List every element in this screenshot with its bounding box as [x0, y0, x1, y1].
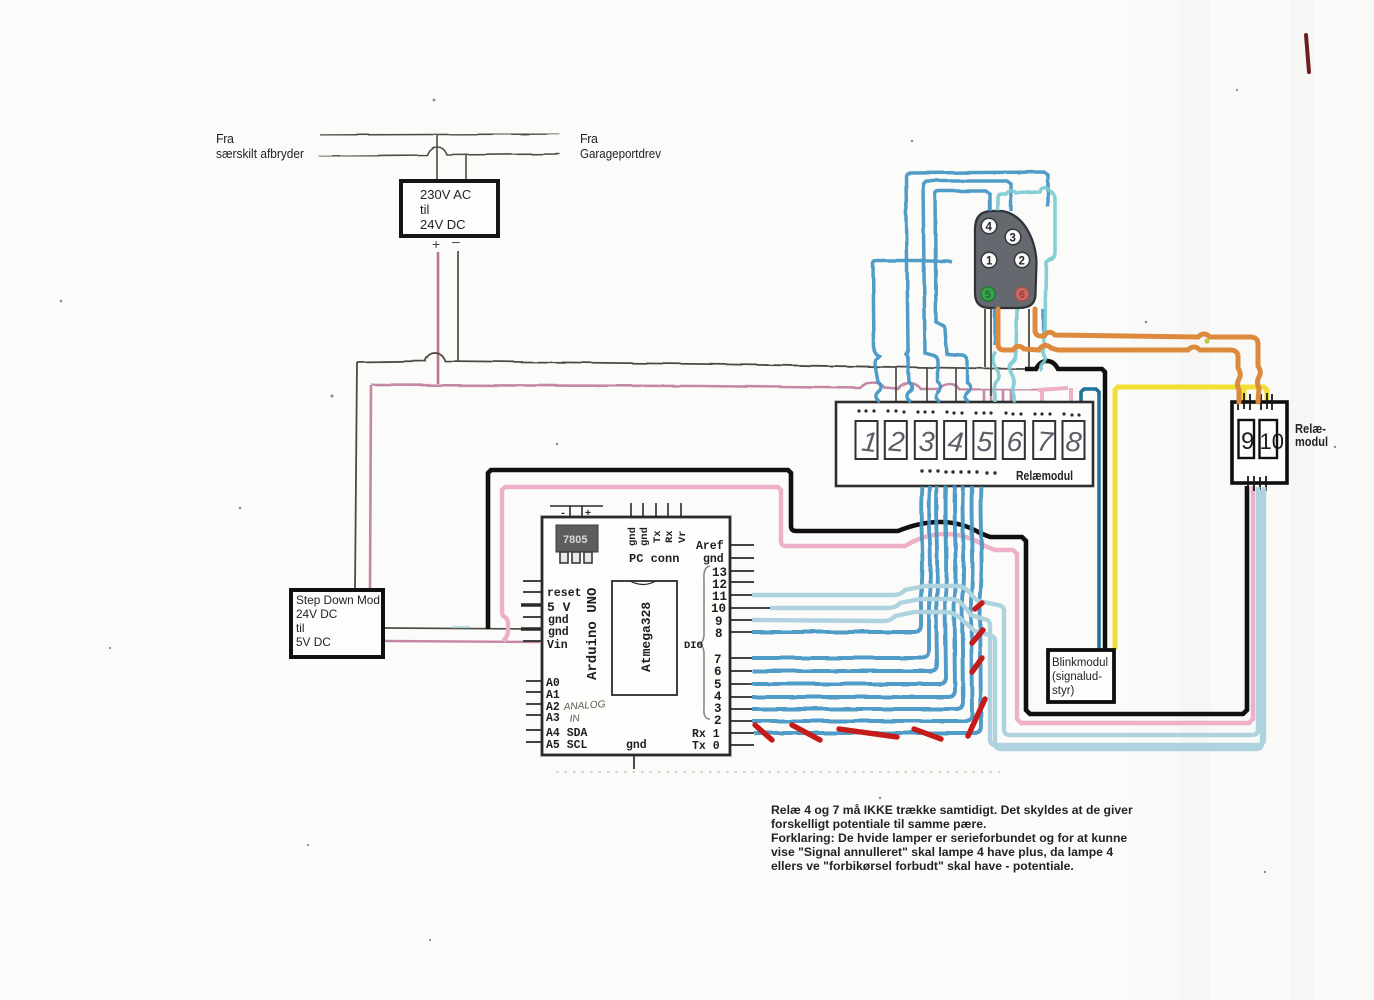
svg-text:1: 1	[986, 256, 993, 268]
svg-text:230V AC: 230V AC	[420, 187, 471, 202]
svg-text:Fra: Fra	[216, 132, 234, 146]
svg-text:10: 10	[711, 602, 726, 616]
wire relay to D8	[752, 486, 922, 632]
svg-text:-: -	[560, 509, 566, 520]
svg-text:til: til	[420, 202, 430, 217]
wire blue from relay 8 to blinkmodul	[1081, 389, 1099, 650]
relay 2	[885, 421, 907, 459]
pencil drop to relay module b	[926, 367, 928, 402]
plus bus stub into relay 6	[1002, 390, 1005, 402]
relay 9/10 top pin ticks	[1238, 393, 1272, 410]
wire N drop to PSU	[465, 155, 467, 181]
red dash 1	[755, 725, 772, 740]
red dash 5	[975, 603, 982, 609]
red dash 8	[968, 699, 985, 736]
svg-text:7805: 7805	[563, 534, 587, 546]
svg-text:4: 4	[986, 222, 993, 234]
relay 4	[944, 421, 966, 459]
pencil drop to relay module a	[895, 367, 897, 402]
svg-text:reset: reset	[547, 587, 582, 600]
signal head body	[975, 211, 1037, 308]
wire 24V plus (dark pink crayon) from PSU	[437, 252, 440, 384]
label Relae-modul	[1295, 422, 1328, 449]
svg-text:vise "Signal annulleret" skal: vise "Signal annulleret" skal lampe 4 ha…	[771, 845, 1113, 859]
svg-text:A3: A3	[546, 712, 560, 725]
gnd pin below board	[633, 755, 635, 769]
IC Atmega328	[612, 581, 677, 695]
wire minus bus (pencil) with hop over pink	[357, 353, 1025, 369]
svg-text:Step Down Mod: Step Down Mod	[296, 593, 380, 607]
arduino UNO board outline	[542, 517, 730, 755]
svg-text:modul: modul	[1295, 435, 1328, 449]
svg-text:6: 6	[1006, 426, 1025, 458]
svg-text:til: til	[296, 621, 305, 635]
svg-text:Fra: Fra	[580, 132, 598, 146]
svg-text:2: 2	[887, 425, 907, 457]
wire D11 pale blue to relay 10	[752, 487, 1258, 735]
wire lamp 3 (cyan, mid top)	[923, 181, 1011, 402]
svg-text:gnd: gnd	[639, 527, 651, 546]
svg-text:PC conn: PC conn	[629, 552, 679, 566]
svg-text:Aref: Aref	[696, 540, 724, 553]
svg-text:Relæ-: Relæ-	[1295, 422, 1326, 436]
svg-text:2: 2	[1019, 256, 1025, 268]
wire minus bus black marker continuation with hop	[1025, 361, 1105, 650]
lamp 6 red	[1015, 287, 1029, 301]
relay module 1-8 box	[836, 402, 1093, 486]
wire 24V minus (pencil) from PSU	[457, 251, 459, 361]
pink line step-down to arduino Vin	[384, 641, 540, 642]
svg-text:gnd: gnd	[703, 553, 724, 566]
wire right of head short (cyan)	[1042, 310, 1046, 338]
label: Fra saerskilt afbryder	[216, 132, 304, 161]
wire mains L (top line)	[320, 134, 560, 135]
svg-text:10: 10	[1260, 429, 1284, 454]
regulator 7805	[556, 525, 598, 563]
arduino left pin ticks	[522, 581, 542, 742]
relay 9/10 bottom pin ticks	[1248, 476, 1266, 492]
wire light teal into relay 6	[1009, 309, 1017, 402]
wire L drop to PSU	[436, 135, 438, 181]
wire mains N (second line with hop)	[318, 147, 560, 156]
wire lamp loop (cyan U)	[873, 261, 952, 402]
thick 5V and gnd ticks	[521, 605, 542, 629]
red dash 4	[914, 729, 941, 739]
relay 5	[973, 421, 995, 459]
label: Fra Garageportdrev	[580, 132, 662, 161]
wire plus bus (magenta crayon) wavy	[372, 382, 1040, 390]
plus bus end into relay 8 (pink marker)	[1038, 388, 1071, 402]
svg-text:5: 5	[985, 289, 991, 301]
svg-text:forskelligt potentiale til sam: forskelligt potentiale til samme pære.	[771, 817, 986, 831]
yellow stub into relay 9	[1242, 387, 1247, 402]
pencil lead lamp 5	[984, 309, 986, 367]
faint dotted line below arduino	[556, 771, 1000, 773]
svg-text:DIO: DIO	[684, 640, 703, 652]
svg-text:IN: IN	[569, 713, 581, 725]
wire orange lamp5 to relay 10	[998, 309, 1240, 402]
svg-text:A5 SCL: A5 SCL	[546, 739, 588, 752]
plus bus stub into relay 7 (pink marker)	[1040, 389, 1044, 402]
svg-text:+: +	[432, 236, 440, 252]
red dash 6	[972, 630, 983, 643]
svg-text:8: 8	[715, 627, 723, 641]
pencil line step-down to arduino gnd	[384, 628, 540, 629]
svg-text:Rx: Rx	[664, 530, 676, 543]
svg-text:Blinkmodul: Blinkmodul	[1052, 657, 1108, 669]
blink module box	[1048, 650, 1114, 702]
svg-text:Garageportdrev: Garageportdrev	[580, 147, 662, 161]
plus bus stub into relay 5	[983, 390, 986, 402]
arduino right pin ticks	[731, 545, 770, 745]
relay 3	[915, 421, 937, 459]
svg-text:Relæmodul: Relæmodul	[1016, 469, 1073, 483]
pencil lead lamp 6	[1028, 309, 1030, 367]
svg-text:24V DC: 24V DC	[420, 217, 466, 232]
svg-text:2: 2	[714, 714, 722, 728]
red dash 7	[972, 658, 982, 672]
wire D10 pale blue to relay 10	[770, 487, 1264, 745]
wire lamp 1 (light teal over head)	[998, 188, 1055, 371]
svg-text:9: 9	[1241, 428, 1254, 455]
pink wire arduino 5V loop	[502, 486, 1253, 723]
svg-text:Forklaring: De hvide lamper er: Forklaring: De hvide lamper er serieforb…	[771, 831, 1127, 845]
wire plus bus drop to step-down	[370, 385, 371, 590]
DIO brace	[699, 566, 710, 719]
svg-text:gnd: gnd	[626, 739, 647, 752]
relay 6	[1003, 421, 1025, 459]
svg-text:Arduino UNO: Arduino UNO	[585, 588, 601, 680]
red dash 2	[792, 725, 820, 740]
wire D9 pale blue to relay 10	[752, 490, 1262, 749]
wire relay to D6	[752, 486, 938, 671]
plus bus stub into relay 6b	[1010, 390, 1013, 402]
wire lamp 2 (cyan, outer top)	[906, 172, 1048, 402]
relay 10	[1260, 420, 1284, 458]
red dash 3	[839, 729, 897, 737]
plus bus stub into relay 5b	[990, 390, 993, 402]
svg-text:gnd: gnd	[627, 527, 639, 546]
wire relay to D2	[752, 486, 973, 721]
relay 8	[1063, 421, 1085, 459]
svg-text:5 V: 5 V	[547, 600, 571, 615]
PC conn pins	[631, 503, 681, 517]
svg-text:5: 5	[976, 426, 995, 458]
relay module bottom dots	[920, 469, 996, 474]
svg-text:+: +	[585, 509, 591, 520]
faint blue tick on gnd line	[452, 626, 470, 628]
svg-text:–: –	[452, 233, 460, 249]
scanner mark top right	[1306, 35, 1309, 72]
wire relay to D3	[752, 486, 964, 709]
svg-text:6: 6	[714, 665, 722, 679]
green dot on orange wire	[1204, 338, 1209, 343]
pencil drop to relay module c	[955, 368, 957, 402]
svg-text:Atmega328: Atmega328	[639, 602, 654, 672]
svg-text:Tx: Tx	[652, 530, 664, 543]
relay 9	[1239, 420, 1255, 458]
wire minus bus drop to step-down	[355, 362, 357, 590]
wire light teal into relay 5	[994, 352, 999, 402]
svg-text:ellers ve "forbikørsel forbudt: ellers ve "forbikørsel forbudt" skal hav…	[771, 859, 1074, 873]
wire relay to D1	[754, 486, 982, 733]
lamp 1	[981, 252, 997, 268]
svg-text:Relæ 4 og 7 må IKKE trække sam: Relæ 4 og 7 må IKKE trække samtidigt. De…	[771, 803, 1133, 817]
relay module 9/10 box	[1232, 402, 1287, 483]
wire orange lamp6 to relay 10	[1035, 309, 1260, 402]
power supply PSU1 230V AC to 24V DC	[401, 181, 498, 236]
pencil lead lamp 5b	[990, 309, 992, 396]
lamp 2	[1014, 252, 1029, 267]
relay module top dots	[857, 409, 1080, 416]
svg-text:3: 3	[918, 426, 936, 458]
wire lamp 4 (cyan, inner top)	[935, 191, 990, 402]
black wire arduino gnd loop	[488, 470, 1247, 714]
svg-text:Vin: Vin	[547, 639, 568, 652]
relay 1	[856, 421, 880, 459]
svg-text:3: 3	[1010, 233, 1016, 245]
lamp 3	[1005, 229, 1021, 245]
wire relay to D7	[752, 486, 930, 658]
svg-text:særskilt afbryder: særskilt afbryder	[216, 147, 304, 161]
step-down module 24V to 5V	[291, 590, 383, 657]
svg-text:24V DC: 24V DC	[296, 607, 338, 621]
lamp 5 green	[981, 287, 995, 301]
wire relay to D5	[752, 486, 947, 684]
svg-text:(signalud-: (signalud-	[1052, 671, 1102, 683]
lamp 4	[981, 218, 997, 234]
svg-text:6: 6	[1019, 289, 1025, 301]
arduino power header line	[550, 506, 603, 517]
svg-text:styr): styr)	[1052, 685, 1075, 697]
svg-text:gnd: gnd	[548, 626, 569, 639]
relay 7	[1033, 421, 1055, 459]
wire yellow blinkmodul to relay 9/10	[1115, 387, 1267, 650]
wire relay to D4	[752, 486, 956, 697]
svg-text:5V DC: 5V DC	[296, 635, 331, 649]
svg-text:Vr: Vr	[677, 530, 689, 543]
wire below head to relay (cyan)	[993, 309, 997, 345]
svg-text:4: 4	[946, 425, 965, 457]
svg-text:Tx 0: Tx 0	[692, 740, 720, 753]
